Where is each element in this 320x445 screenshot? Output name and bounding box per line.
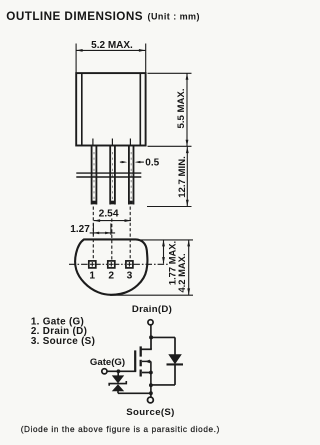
wire source vertical (150, 373, 152, 398)
lead 1 (92, 146, 97, 205)
wire drain stub horizontal (140, 348, 151, 350)
svg-text:12.7 MIN.: 12.7 MIN. (177, 156, 188, 198)
1.27 extension tick left (92, 223, 94, 235)
bottom view horizontal centerline (69, 263, 88, 265)
1.27 extension tick right (110, 223, 112, 235)
svg-text:5.5 MAX.: 5.5 MAX. (176, 89, 187, 129)
svg-text:3: 3 (127, 271, 133, 282)
wire drain down (150, 325, 152, 338)
parasitic diode cathode bar (167, 363, 184, 365)
5.5 MAX extension top (148, 72, 192, 74)
2.54 dimension line (94, 220, 131, 222)
drain terminal (148, 320, 153, 325)
dashed centerline pin 3 (129, 207, 131, 261)
pin 2 center cross (109, 263, 114, 265)
lead 2 (110, 146, 115, 205)
svg-text:3. Source (S): 3. Source (S) (31, 336, 95, 347)
1.27 dimension line (90, 232, 115, 234)
5.5 MAX dimension line (186, 73, 188, 146)
node zener rail junction (149, 391, 153, 395)
pin 3 square (126, 261, 133, 268)
wire body tie vertical (150, 361, 152, 372)
gate zener bar (109, 381, 126, 386)
pin 2 square (108, 261, 115, 268)
wire diode branch upper (174, 337, 176, 354)
body inner line right (139, 73, 141, 145)
wire drain stub vertical (150, 337, 152, 349)
wire zener upper (117, 371, 119, 376)
svg-text:Drain(D): Drain(D) (132, 304, 172, 315)
svg-text:(Unit : mm): (Unit : mm) (148, 12, 200, 22)
svg-text:0.5: 0.5 (145, 157, 159, 168)
bottom view top extension (137, 239, 193, 241)
12.7 MIN dimension line (186, 147, 188, 207)
lead break line lower (76, 176, 141, 178)
wire zener lower (117, 391, 119, 393)
wire zener rail (118, 392, 151, 394)
lead break line upper (76, 172, 141, 174)
gate zener bottom triangle (112, 384, 124, 391)
wire source stub (142, 372, 151, 374)
svg-text:1: 1 (89, 271, 95, 282)
node drain junction (149, 335, 153, 339)
node diode rail junction (149, 383, 153, 387)
pin 3 center cross (127, 263, 132, 265)
dashed centerline pin 2 (111, 219, 113, 261)
mosfet channel dash bottom (140, 370, 142, 377)
svg-text:Source(S): Source(S) (126, 407, 174, 418)
package body outline (76, 73, 145, 145)
wire gate (107, 370, 136, 372)
source terminal (148, 397, 154, 403)
gate terminal (102, 369, 107, 374)
5.2 MAX dimension line (76, 49, 145, 51)
body arrow (145, 360, 150, 364)
dashed centerline pin 1 (92, 207, 94, 261)
wire bottom rail from diode (151, 384, 175, 386)
svg-text:4.2 MAX.: 4.2 MAX. (176, 253, 187, 292)
body bottom extension right (148, 145, 192, 147)
lead bottom extension right (147, 206, 192, 208)
wire top rail to diode (151, 336, 175, 338)
bottom view outline (75, 239, 147, 294)
node source stub junction (149, 371, 153, 375)
wire diode branch lower (174, 366, 176, 385)
svg-text:2.54: 2.54 (99, 208, 119, 219)
wire body stub (142, 360, 151, 362)
0.5 lead width dimension (120, 161, 124, 163)
svg-text:2: 2 (108, 271, 114, 282)
svg-text:OUTLINE DIMENSIONS: OUTLINE DIMENSIONS (6, 10, 143, 23)
lead 3 (129, 146, 134, 205)
5.2 MAX arrow left (76, 49, 83, 52)
4.2 MAX dimension line (188, 240, 190, 295)
svg-text:1.27: 1.27 (70, 224, 90, 235)
bottom view bottom extension (110, 294, 193, 296)
mosfet channel dash middle (140, 360, 142, 367)
gate zener top triangle (112, 375, 124, 383)
1.77 MAX dimension line (163, 240, 165, 264)
5.2 MAX extension line right (145, 44, 147, 74)
svg-text:(Diode in the above figure is: (Diode in the above figure is a parasiti… (21, 425, 220, 434)
mosfet gate electrode (134, 350, 136, 371)
pin 1 center cross (90, 263, 95, 265)
pin 1 square (89, 261, 96, 268)
5.2 MAX extension line left (75, 44, 77, 74)
svg-text:5.2 MAX.: 5.2 MAX. (91, 40, 133, 51)
lead tips inside body (92, 139, 94, 146)
mosfet channel dash top (140, 346, 142, 356)
node gate zener tap (117, 369, 121, 373)
svg-text:Gate(G): Gate(G) (90, 357, 125, 368)
parasitic diode triangle (168, 354, 182, 364)
body inner line left (81, 73, 83, 145)
5.2 MAX arrow right (139, 49, 146, 52)
